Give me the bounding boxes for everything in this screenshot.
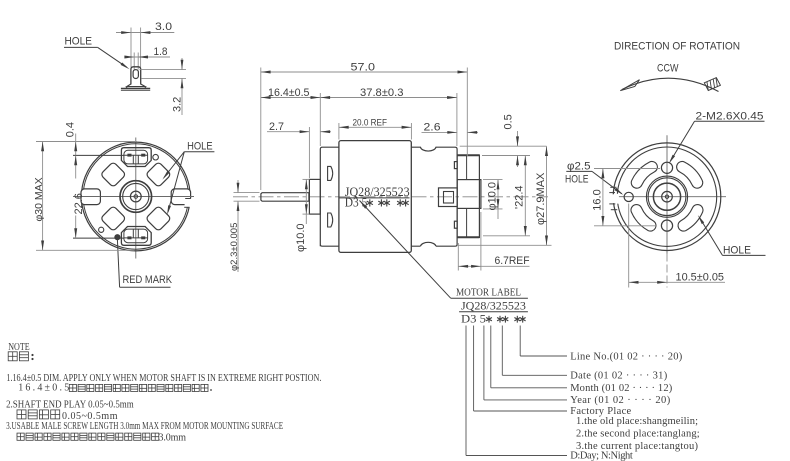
vent slot SE [678,205,703,232]
svg-text:37.8±0.3: 37.8±0.3 [360,87,404,99]
svg-text:HOLE: HOLE [723,244,751,256]
svg-text:φ27.9MAX: φ27.9MAX [535,172,547,225]
svg-text:Date (01 02 · · · · 31): Date (01 02 · · · · 31) [570,370,668,381]
front vent D-hole lower [328,213,333,227]
decode connector 6 [465,326,467,456]
svg-text:16.4±0.5: 16.4±0.5 [268,87,310,99]
svg-text:2.SHAFT END PLAY 0.05~0.5mm: 2.SHAFT END PLAY 0.05~0.5mm [6,400,134,411]
terminal block inner [444,192,454,204]
svg-text:φ30 MAX: φ30 MAX [33,177,45,221]
rear crosshair [666,135,668,253]
rim notch right [185,198,193,207]
svg-text:D3 5: D3 5 [461,312,486,326]
right mounting tab [171,189,190,205]
dimension 37.8 +-0.3 [456,93,458,146]
dimension 6.7REF [457,243,459,271]
svg-text:0.5: 0.5 [503,114,515,129]
decode connector 5 [473,326,475,412]
screw hole bottom [661,220,672,231]
svg-text:HOLE: HOLE [65,35,93,47]
can front section [320,147,339,246]
front view: motor face [33,122,214,287]
magnet band [339,141,411,253]
label RED MARK [117,240,119,288]
svg-text:φ2.3±0.005: φ2.3±0.005 [229,223,240,271]
vent slot NE [677,162,703,189]
label MOTOR LABEL leader [360,201,451,299]
svg-text:1.8: 1.8 [154,46,168,58]
centerline (side view) [233,196,548,198]
screw hole top [661,162,672,173]
dimension phi2.3 +-0.005 [234,192,260,194]
svg-text:φ10.0: φ10.0 [295,223,307,252]
rear bearing boss [457,180,481,209]
case seam circle [83,144,188,249]
svg-text:22.6: 22.6 [73,193,85,214]
dimension 2.7 [308,127,310,178]
svg-text:3.the current place:tangtou): 3.the current place:tangtou) [576,441,699,452]
dimension 0.4 [55,141,137,143]
rotation arc arrow [622,78,719,91]
decode connector 3 [490,326,492,388]
svg-text:MOTOR LABEL: MOTOR LABEL [456,287,521,299]
dimension 57.0 [260,68,262,191]
note line 6 [17,433,24,440]
svg-text:2-M2.6X0.45: 2-M2.6X0.45 [696,110,764,122]
svg-text:Month (01 02 · · · · 12): Month (01 02 · · · · 12) [570,383,673,394]
top brush window [121,148,151,167]
bottom brush window [121,227,151,246]
svg-text:57.0: 57.0 [351,61,376,73]
svg-text:DIRECTION OF ROTATION: DIRECTION OF ROTATION [614,40,740,52]
front vent D-hole upper [328,166,333,180]
svg-text:φ2.5: φ2.5 [567,161,591,173]
can rear section top [411,147,457,246]
svg-text:Line No.(01 02 · · · · 20): Line No.(01 02 · · · · 20) [570,351,683,362]
wire: shaft side extension lines [130,28,132,68]
svg-text:D3 5: D3 5 [345,196,368,210]
rear shaft hole [662,191,673,202]
shaft center dot [134,195,138,199]
svg-text:JQ28/325523: JQ28/325523 [461,298,526,312]
dimension 22.4 [483,235,530,237]
svg-text:3.0: 3.0 [155,21,172,33]
dimension 1.8 [126,56,170,58]
vent cutout 3 [100,206,126,232]
svg-text:2.the second place:tanglang;: 2.the second place:tanglang; [576,429,700,440]
bearing boss rings [120,181,152,213]
rear seam circle [617,147,716,246]
decode connector 4 [483,326,485,400]
dimension phi10.0 left [303,178,310,180]
dimension 3.2 [140,69,187,71]
vent slot SW [631,205,656,232]
vent cutout 1 [100,162,126,188]
svg-text:3.0mm: 3.0mm [159,432,187,443]
red mark dot [115,235,120,240]
detail view: shaft end hole [64,21,186,115]
svg-text:3.2: 3.2 [172,97,184,112]
decode connector 2 [501,326,503,376]
svg-text:CCW: CCW [657,63,679,75]
svg-text:16.0: 16.0 [592,189,604,210]
svg-text:HOLE: HOLE [187,140,213,152]
shaft tip outline [131,67,141,85]
dimension 20.0 REF [338,123,340,140]
centerline crosshair [135,138,137,259]
svg-text:RED MARK: RED MARK [123,274,173,286]
phi2.5 hole left [624,192,633,201]
dimension 16.0 [594,168,660,170]
dimension 2.6 [422,131,458,133]
note title cjk [8,352,17,361]
outer case circle [81,142,190,251]
left mounting tab [81,189,100,205]
dimension phi30 MAX [36,141,76,143]
end cap body [457,155,479,237]
svg-text:10.5±0.05: 10.5±0.05 [676,271,725,283]
dimension phi10.0 right [483,179,503,181]
svg-text:φ10.0: φ10.0 [487,182,499,211]
front bearing boss [309,179,320,214]
hatched tail [704,78,720,91]
note block [6,342,321,443]
small hole bottom-left [99,227,104,232]
shaft circle [130,191,141,202]
svg-text:1.the old place:shangmeilin;: 1.the old place:shangmeilin; [576,416,698,427]
rear outer circle [613,143,721,251]
bottom vent notch [420,242,436,246]
crimp tab top [454,162,457,169]
rear boss rings [646,176,687,217]
svg-text:2.6: 2.6 [424,122,441,134]
svg-text:0.4: 0.4 [65,122,77,137]
svg-text:'22.4: '22.4 [514,185,526,209]
decode connector 1 [519,326,521,357]
svg-text:16.4±0.5: 16.4±0.5 [18,383,69,394]
dimension 10.5 +-0.05 [628,204,630,288]
dimension 3.0 [116,32,174,34]
svg-text:HOLE: HOLE [565,173,589,185]
dimension phi27.9MAX [457,244,552,246]
dimension 16.4 +-0.5 [319,93,321,146]
slot hole in shaft [133,70,138,79]
svg-text:Year (01 02 · · · · 20): Year (01 02 · · · · 20) [570,395,671,406]
terminal block [439,188,458,207]
rear view: motor end [565,40,766,287]
svg-text:3.USABLE MALE SCREW LENGTH 3.0: 3.USABLE MALE SCREW LENGTH 3.0mm MAX FRO… [6,421,283,432]
side view: motor assembly [229,61,552,298]
small hole top-right [153,154,159,160]
crimp tab bottom [454,221,457,228]
base flare [127,84,146,87]
motor shaft [261,193,309,202]
end cap step lines [466,155,468,180]
rim notch left (two slits) [608,194,620,200]
vent cutout 4 [146,206,172,232]
label decode block [459,298,700,461]
note line 4 [17,410,26,419]
svg-text:6.7REF: 6.7REF [495,255,530,267]
dimension 22.6 [73,154,124,156]
vent cutout 2 [146,162,172,188]
dimension 0.5 [460,145,547,147]
svg-text:20.0 REF: 20.0 REF [353,118,388,129]
vent slot NW [631,161,657,188]
svg-text:2.7: 2.7 [269,121,284,133]
